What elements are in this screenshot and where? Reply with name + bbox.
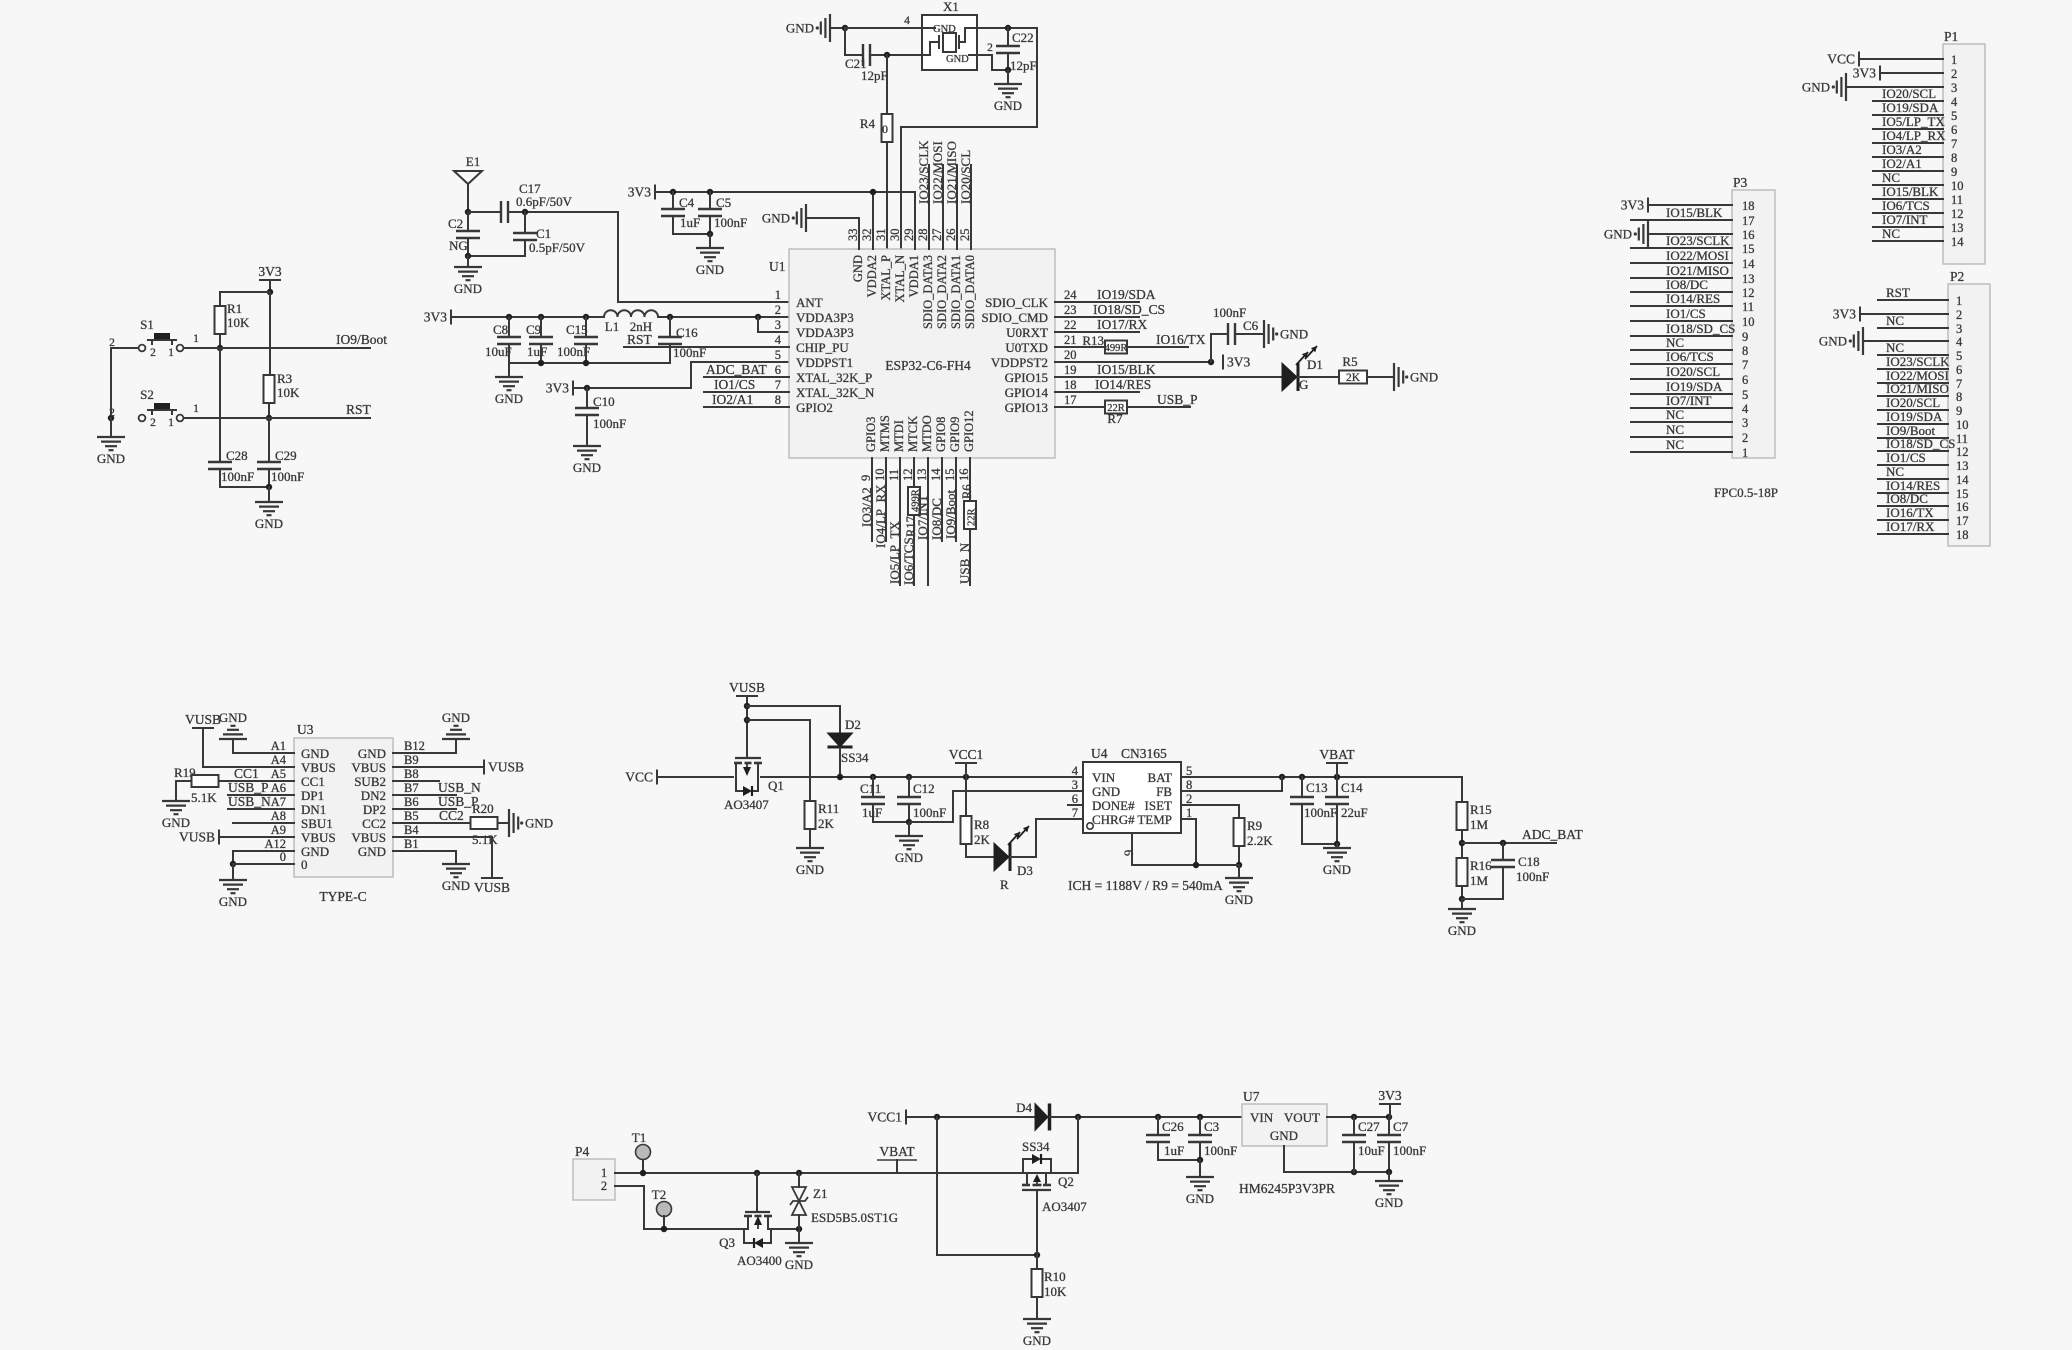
- svg-text:T2: T2: [652, 1187, 666, 1202]
- svg-text:13: 13: [915, 469, 929, 482]
- svg-text:IO18/SD_CS: IO18/SD_CS: [1666, 321, 1735, 336]
- wire: [176, 781, 191, 801]
- wire B12: [393, 739, 456, 753]
- svg-text:12pF: 12pF: [1010, 58, 1037, 73]
- capacitor C21: [862, 44, 864, 66]
- svg-text:IO19/SDA: IO19/SDA: [1097, 287, 1156, 302]
- svg-text:VUSB: VUSB: [729, 680, 765, 695]
- svg-text:1: 1: [775, 288, 781, 302]
- wire: [1648, 233, 1732, 235]
- wire A6: [228, 794, 294, 796]
- wire: [1878, 395, 1948, 397]
- svg-text:GND: GND: [1225, 892, 1253, 907]
- svg-text:10: 10: [1742, 315, 1755, 329]
- wire: [966, 844, 994, 857]
- svg-text:13: 13: [1951, 221, 1964, 235]
- wire 3V3 rail to VDDA3P3: [451, 316, 604, 318]
- svg-text:IO19/SDA: IO19/SDA: [1666, 379, 1723, 394]
- svg-text:31: 31: [874, 229, 888, 242]
- svg-text:VDDA1: VDDA1: [907, 255, 921, 297]
- wire pin15: [955, 458, 957, 541]
- node A12-0: [230, 861, 236, 867]
- svg-text:100nF: 100nF: [221, 469, 254, 484]
- ground: [1375, 1180, 1403, 1182]
- wire pin4: [830, 27, 845, 29]
- svg-text:12: 12: [1951, 207, 1964, 221]
- wire: [1873, 198, 1943, 200]
- svg-text:C9: C9: [526, 322, 541, 337]
- svg-text:C29: C29: [275, 448, 297, 463]
- svg-text:IO15/BLK: IO15/BLK: [1666, 205, 1723, 220]
- ground flag (pin33): [805, 204, 807, 232]
- wire: [1631, 421, 1732, 423]
- svg-text:USB_N: USB_N: [228, 794, 271, 809]
- capacitor C14: [1336, 777, 1338, 797]
- svg-text:NC: NC: [1882, 170, 1900, 185]
- ground: [219, 879, 247, 881]
- svg-text:R8: R8: [974, 817, 989, 832]
- wire: [746, 696, 748, 758]
- capacitor C28: [208, 461, 232, 463]
- wire: [1631, 436, 1732, 438]
- svg-text:ADC_BAT: ADC_BAT: [706, 362, 768, 377]
- wire: [1878, 299, 1948, 301]
- ground: [1323, 847, 1351, 849]
- wire: [1878, 450, 1948, 452]
- wire: [1878, 409, 1948, 411]
- svg-text:SDIO_DATA1: SDIO_DATA1: [949, 255, 963, 329]
- svg-text:IO19/SDA: IO19/SDA: [1882, 100, 1939, 115]
- svg-text:10K: 10K: [1044, 1284, 1067, 1299]
- ground flag (R5): [1393, 363, 1395, 391]
- wire: [1631, 335, 1732, 337]
- svg-text:DP2: DP2: [363, 802, 386, 817]
- wire: [1235, 333, 1264, 335]
- svg-text:3V3: 3V3: [424, 310, 447, 325]
- wire: [1461, 899, 1463, 909]
- svg-text:BAT: BAT: [1147, 770, 1172, 785]
- svg-text:NC: NC: [1666, 422, 1684, 437]
- node S2-gnd: [108, 415, 114, 421]
- node T2: [661, 1226, 667, 1232]
- svg-text:2: 2: [1742, 431, 1748, 445]
- node R9-gnd: [1236, 862, 1242, 868]
- capacitor C10: [586, 388, 588, 408]
- svg-text:1: 1: [1951, 53, 1957, 67]
- svg-text:C12: C12: [913, 781, 935, 796]
- wire: [1631, 407, 1732, 409]
- wire: [1859, 58, 1943, 60]
- svg-text:Z1: Z1: [813, 1186, 827, 1201]
- svg-text:AO3407: AO3407: [1042, 1199, 1087, 1214]
- svg-text:100nF: 100nF: [1393, 1143, 1426, 1158]
- svg-text:4: 4: [1956, 335, 1963, 349]
- power flag VUSB (B4): [481, 877, 503, 879]
- svg-text:3V3: 3V3: [1853, 66, 1876, 81]
- wire: [886, 142, 888, 249]
- svg-text:7: 7: [1951, 137, 1957, 151]
- svg-text:10uF: 10uF: [1358, 1143, 1385, 1158]
- wire: [1007, 70, 1009, 84]
- node C13-C14-gnd: [1334, 841, 1340, 847]
- connector P3: [1732, 190, 1775, 458]
- svg-text:VBAT: VBAT: [879, 1144, 915, 1159]
- ground: [895, 835, 923, 837]
- LED D1: [1282, 363, 1297, 391]
- wire: [1199, 1160, 1201, 1177]
- wire: [1631, 378, 1732, 380]
- wire RST: [184, 417, 370, 419]
- svg-text:21: 21: [1064, 333, 1077, 347]
- svg-text:3: 3: [1951, 81, 1957, 95]
- capacitor C4: [672, 192, 674, 209]
- svg-text:A8: A8: [271, 809, 286, 823]
- svg-text:RST: RST: [627, 332, 653, 347]
- wire: [768, 1228, 799, 1230]
- node T1: [640, 1170, 646, 1176]
- svg-text:DN1: DN1: [301, 802, 326, 817]
- wire: [758, 317, 789, 332]
- svg-text:GPIO12: GPIO12: [962, 410, 976, 452]
- svg-text:3V3: 3V3: [1378, 1088, 1401, 1103]
- ground: [1186, 1176, 1214, 1178]
- node C9: [538, 314, 544, 320]
- node 3V3-R1-R3: [267, 289, 273, 295]
- svg-text:IO21/MISO: IO21/MISO: [1666, 263, 1729, 278]
- wire: [1077, 1117, 1079, 1173]
- svg-text:25: 25: [958, 229, 972, 242]
- wire pin13: [927, 458, 929, 585]
- power flag 3V3 (pin20): [1222, 355, 1224, 370]
- svg-text:VCC: VCC: [625, 770, 653, 785]
- svg-text:100nF: 100nF: [271, 469, 304, 484]
- power flag 3V3: [1647, 198, 1649, 213]
- resistor R3: [264, 375, 275, 403]
- svg-text:10: 10: [1956, 418, 1969, 432]
- svg-text:1: 1: [1186, 806, 1192, 820]
- svg-text:R13: R13: [1082, 333, 1104, 348]
- wire: [1462, 867, 1503, 899]
- svg-text:8: 8: [1742, 344, 1748, 358]
- ground: [162, 800, 190, 802]
- svg-text:100nF: 100nF: [1304, 805, 1337, 820]
- node ant: [465, 209, 471, 215]
- node pin32-3V3: [870, 189, 876, 195]
- svg-text:ESP32-C6-FH4: ESP32-C6-FH4: [885, 358, 971, 373]
- svg-text:8: 8: [1956, 390, 1962, 404]
- svg-text:B5: B5: [404, 809, 419, 823]
- svg-text:VIN: VIN: [1250, 1110, 1274, 1125]
- svg-text:R20: R20: [472, 801, 494, 816]
- wire: [756, 1173, 758, 1212]
- wire: [937, 1117, 1037, 1255]
- capacitor C13: [1301, 777, 1303, 797]
- svg-text:3: 3: [1072, 778, 1078, 792]
- wire: [1211, 334, 1228, 362]
- wire 3V3 rail top: [655, 191, 915, 193]
- ground: [1225, 877, 1253, 879]
- svg-text:1: 1: [601, 1166, 607, 1180]
- wire: [1631, 277, 1732, 279]
- svg-text:13: 13: [1956, 459, 1969, 473]
- capacitor C8: [508, 317, 510, 337]
- svg-text:7: 7: [1742, 358, 1748, 372]
- wire: [585, 344, 587, 363]
- svg-text:IO5/LP_TX: IO5/LP_TX: [887, 521, 902, 584]
- svg-text:NC: NC: [1882, 226, 1900, 241]
- svg-text:1: 1: [168, 417, 174, 429]
- wire: [809, 829, 811, 848]
- wire: [1878, 423, 1948, 425]
- ground: [255, 501, 283, 503]
- svg-text:4: 4: [1072, 764, 1079, 778]
- node VCC1: [963, 774, 969, 780]
- wire TEMP: [1181, 819, 1196, 865]
- power flag 3V3 (U7): [1379, 1103, 1401, 1105]
- svg-text:IO1/CS: IO1/CS: [1666, 306, 1706, 321]
- svg-text:R1: R1: [227, 301, 242, 316]
- node C26: [1155, 1114, 1161, 1120]
- resistor R17 499R: [908, 487, 920, 515]
- node ADC_BAT: [1459, 840, 1465, 846]
- svg-text:NC: NC: [1886, 464, 1904, 479]
- node D4-Q2: [1075, 1114, 1081, 1120]
- capacitor C1: [524, 212, 526, 233]
- capacitor C29: [257, 461, 281, 463]
- wire B8 stub: [393, 780, 439, 782]
- ground flag: [1862, 327, 1864, 355]
- svg-text:A1: A1: [271, 739, 286, 753]
- svg-text:IO20/SCL: IO20/SCL: [1886, 395, 1940, 410]
- svg-text:3V3: 3V3: [258, 264, 281, 279]
- capacitor C7: [1388, 1117, 1390, 1135]
- wire: [1127, 406, 1190, 408]
- wire: [1298, 376, 1339, 378]
- svg-text:IO20/SCL: IO20/SCL: [1666, 364, 1720, 379]
- node D2-out: [837, 774, 843, 780]
- wire pin17: [1055, 406, 1106, 408]
- capacitor C3: [1199, 1117, 1201, 1135]
- wire: [1878, 437, 1948, 439]
- svg-text:14: 14: [1742, 257, 1755, 271]
- power flag VBAT: [1326, 762, 1348, 764]
- svg-text:C1: C1: [536, 226, 551, 241]
- svg-text:3: 3: [1956, 322, 1962, 336]
- wire: [1878, 368, 1948, 370]
- power flag 3V3 (C10): [572, 381, 574, 396]
- wire ADC_BAT pin6: [704, 376, 789, 378]
- svg-text:22: 22: [1064, 318, 1077, 332]
- node C16: [667, 314, 673, 320]
- svg-text:9: 9: [859, 475, 873, 481]
- svg-text:6: 6: [1742, 373, 1748, 387]
- wire: [1461, 886, 1463, 899]
- wire: [1873, 142, 1943, 144]
- svg-text:IO15/BLK: IO15/BLK: [1882, 184, 1939, 199]
- ground flag: [1845, 73, 1847, 101]
- svg-text:GND: GND: [573, 460, 601, 475]
- svg-text:SS34: SS34: [841, 750, 869, 765]
- wire pin2: [977, 55, 1008, 70]
- node C4-C5-gnd: [707, 231, 713, 237]
- capacitor C15: [585, 317, 587, 337]
- node C14-VBAT: [1334, 774, 1340, 780]
- wire: [839, 748, 841, 777]
- wire: [642, 1160, 644, 1173]
- resistor R10 10K: [1036, 1255, 1038, 1269]
- svg-text:IO9/Boot: IO9/Boot: [336, 332, 387, 347]
- wire pin24: [1055, 301, 1139, 303]
- wire: [1863, 340, 1948, 342]
- svg-text:GND: GND: [1280, 327, 1308, 342]
- svg-text:RST: RST: [1886, 285, 1910, 300]
- svg-text:2: 2: [150, 347, 156, 359]
- svg-text:23: 23: [1064, 303, 1077, 317]
- node VUSB-R11: [744, 717, 750, 723]
- power flag VUSB (B9): [483, 760, 485, 775]
- svg-text:4: 4: [775, 333, 782, 347]
- svg-text:9: 9: [1956, 404, 1962, 418]
- svg-text:U3: U3: [297, 722, 314, 737]
- wire to R11: [747, 720, 810, 801]
- svg-text:SDIO_CMD: SDIO_CMD: [982, 310, 1048, 325]
- svg-text:1: 1: [193, 333, 199, 345]
- svg-text:VCC1: VCC1: [949, 747, 984, 762]
- node C13: [1299, 774, 1305, 780]
- wire pin32 3V3: [872, 192, 874, 249]
- svg-text:IO8/DC: IO8/DC: [1886, 491, 1928, 506]
- IC U7 HM6245P3V3PR: [1242, 1104, 1327, 1146]
- svg-text:5.1K: 5.1K: [472, 832, 498, 847]
- svg-text:D3: D3: [1017, 863, 1033, 878]
- wire: [1873, 170, 1943, 172]
- svg-text:IO23/SCLK: IO23/SCLK: [1666, 233, 1730, 248]
- svg-text:GND: GND: [1448, 923, 1476, 938]
- svg-text:GND: GND: [1819, 334, 1847, 349]
- wire: [1336, 763, 1338, 777]
- svg-text:28: 28: [916, 229, 930, 242]
- svg-text:9: 9: [1122, 850, 1136, 856]
- svg-text:NC: NC: [1886, 313, 1904, 328]
- wire B7: [393, 794, 456, 796]
- svg-text:14: 14: [1951, 235, 1964, 249]
- svg-text:XTAL_32K_N: XTAL_32K_N: [796, 385, 875, 400]
- svg-text:XTAL_P: XTAL_P: [879, 255, 893, 301]
- node C3: [1197, 1114, 1203, 1120]
- wire: [1036, 1297, 1038, 1319]
- wire: [1878, 354, 1948, 356]
- svg-text:14: 14: [1956, 473, 1969, 487]
- wire: [219, 348, 221, 462]
- svg-text:13: 13: [1742, 272, 1755, 286]
- svg-text:B6: B6: [404, 795, 419, 809]
- node TEMP-9: [1193, 862, 1199, 868]
- wire ADC_BAT: [1462, 842, 1556, 844]
- wire RST pin4: [624, 346, 789, 348]
- svg-text:VDDA3P3: VDDA3P3: [796, 310, 854, 325]
- svg-text:32: 32: [860, 229, 874, 242]
- resistor R6 22R: [964, 501, 976, 529]
- capacitor C22: [1007, 28, 1009, 46]
- wire: [1631, 320, 1732, 322]
- svg-text:R7: R7: [1107, 411, 1123, 426]
- svg-text:R5: R5: [1342, 354, 1357, 369]
- transistor Q3 AO3400: [745, 1211, 770, 1213]
- svg-text:12: 12: [1956, 445, 1969, 459]
- power flag VCC1: [905, 1110, 907, 1125]
- svg-text:SUB2: SUB2: [354, 774, 386, 789]
- svg-text:P2: P2: [1950, 269, 1964, 284]
- svg-text:IO17/RX: IO17/RX: [1886, 519, 1935, 534]
- node C7-gnd: [1386, 1169, 1392, 1175]
- svg-text:GPIO2: GPIO2: [796, 400, 833, 415]
- ground: [1023, 1318, 1051, 1320]
- wire: [1873, 128, 1943, 130]
- wire pin20: [1055, 361, 1211, 363]
- svg-text:IO22/MOSI: IO22/MOSI: [1666, 248, 1729, 263]
- wire: [1878, 492, 1948, 494]
- wire: [965, 763, 967, 777]
- svg-text:IO8/DC: IO8/DC: [929, 498, 944, 540]
- svg-text:SDIO_CLK: SDIO_CLK: [985, 295, 1048, 310]
- svg-text:GND: GND: [1270, 1128, 1298, 1143]
- svg-text:R9: R9: [1247, 818, 1262, 833]
- svg-text:3: 3: [775, 318, 781, 332]
- node C22-gnd: [1005, 67, 1011, 73]
- svg-text:IO16/TX: IO16/TX: [1886, 505, 1934, 520]
- ground: [573, 445, 601, 447]
- wire B4: [393, 837, 492, 878]
- node C1 tap: [522, 209, 528, 215]
- svg-text:17: 17: [1064, 393, 1077, 407]
- svg-text:100nF: 100nF: [913, 805, 946, 820]
- svg-text:GND: GND: [97, 451, 125, 466]
- svg-text:R6: R6: [960, 484, 974, 499]
- diode D2 SS34: [828, 733, 853, 747]
- svg-text:DN2: DN2: [361, 788, 386, 803]
- svg-text:GPIO8: GPIO8: [934, 417, 948, 452]
- svg-text:2: 2: [1956, 308, 1962, 322]
- wire A1: [233, 739, 294, 753]
- svg-text:10K: 10K: [227, 315, 250, 330]
- svg-text:NC: NC: [1666, 437, 1684, 452]
- svg-text:IO1/CS: IO1/CS: [1886, 450, 1926, 465]
- svg-text:16: 16: [1956, 500, 1969, 514]
- capacitor C6: [1227, 323, 1229, 345]
- wire: [1873, 100, 1943, 102]
- svg-text:IO14/RES: IO14/RES: [1095, 377, 1151, 392]
- svg-text:GND: GND: [1186, 1191, 1214, 1206]
- svg-text:GND: GND: [358, 844, 386, 859]
- svg-text:C4: C4: [679, 195, 695, 210]
- svg-text:2: 2: [1951, 67, 1957, 81]
- resistor R15 1M: [1461, 777, 1463, 802]
- capacitor C12: [908, 777, 910, 797]
- wire: [909, 791, 1083, 822]
- svg-text:GND: GND: [1023, 1333, 1051, 1348]
- svg-text:U0RXT: U0RXT: [1006, 325, 1048, 340]
- svg-text:7: 7: [775, 378, 781, 392]
- svg-text:2K: 2K: [1346, 372, 1361, 384]
- svg-text:S1: S1: [140, 317, 154, 332]
- svg-text:8: 8: [1186, 778, 1192, 792]
- wire: [1050, 1116, 1242, 1118]
- ground: [994, 83, 1022, 85]
- svg-text:VUSB: VUSB: [179, 830, 215, 845]
- svg-text:11: 11: [1951, 193, 1963, 207]
- svg-text:L1: L1: [605, 319, 619, 334]
- diode D4 SS34: [1035, 1104, 1048, 1131]
